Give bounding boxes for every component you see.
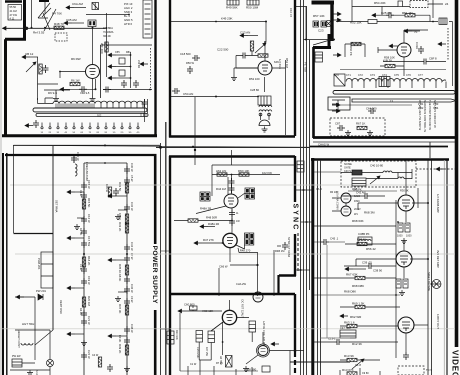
resistor R13 xyxy=(347,358,357,361)
node label V12 vertical xyxy=(287,237,291,258)
resistor R49 hatched box xyxy=(227,0,239,5)
svg-text:922: 922 xyxy=(97,113,102,117)
svg-text:C39 .05: C39 .05 xyxy=(362,261,372,265)
svg-text:R30 5K: R30 5K xyxy=(400,189,409,193)
capacitor C12 xyxy=(79,86,87,92)
resistor RF3 vertical xyxy=(125,265,128,275)
node label R58 10K xyxy=(384,56,395,60)
svg-text:C22 500: C22 500 xyxy=(217,48,229,52)
wire horizontal H15 xyxy=(44,90,70,96)
wire grid lead V2 xyxy=(60,72,86,79)
ground B2 xyxy=(231,75,237,81)
node junction dot bus2 xyxy=(215,96,217,98)
wire C66 link xyxy=(230,253,258,296)
node dashed box top xyxy=(410,1,428,8)
node label C54 xyxy=(183,92,193,96)
wire termination internals xyxy=(332,100,345,110)
node label CHAS W xyxy=(318,143,330,147)
node terminal arrow bus left xyxy=(3,27,11,31)
wire osc input xyxy=(186,306,222,311)
capacitor C13A xyxy=(187,66,193,74)
wire block D right border xyxy=(446,159,448,375)
ground F4 xyxy=(115,296,121,302)
capacitor CF2 xyxy=(124,204,130,212)
wire horizontal H16 xyxy=(38,83,59,85)
node connector pair P4 xyxy=(321,21,327,27)
svg-text:C72: C72 xyxy=(358,73,363,77)
wire block C top border xyxy=(312,1,335,5)
capacitor C23 terminal xyxy=(240,34,248,38)
capacitor CF4 xyxy=(124,286,130,294)
wire d-top net xyxy=(314,171,342,173)
node label comp box xyxy=(353,189,362,192)
wire cluster bottom xyxy=(103,89,152,91)
svg-text:C1.8: C1.8 xyxy=(355,363,361,367)
svg-text:R12 3K: R12 3K xyxy=(352,342,362,346)
node label FRED ADJ vertical xyxy=(85,162,89,181)
node label C60 vertical xyxy=(76,152,80,161)
svg-text:R48A 2R: R48A 2R xyxy=(208,222,219,226)
svg-text:NOT ANY CIRCUIT W: NOT ANY CIRCUIT W xyxy=(433,100,437,128)
svg-text:R60 PK: R60 PK xyxy=(349,46,353,56)
wire V9 cathode xyxy=(403,267,405,278)
svg-text:R44 1M: R44 1M xyxy=(216,187,226,191)
node label R57 xyxy=(313,14,325,18)
wire top stage feed xyxy=(348,190,397,192)
svg-text:C16 W: C16 W xyxy=(87,214,91,223)
node termination dot xyxy=(337,103,339,105)
wire diagonal crossover xyxy=(43,9,56,31)
tube V2 pentode xyxy=(86,65,100,79)
svg-text:7F: 7F xyxy=(414,30,418,34)
resistor RF21 vertical xyxy=(125,214,128,224)
resistor RF5 vertical xyxy=(125,345,128,355)
wire riser turn xyxy=(429,142,431,158)
node label K8 xyxy=(383,59,392,63)
wire bottom-left net xyxy=(15,297,35,360)
wire inner partition left xyxy=(13,146,15,234)
node junction dot xyxy=(265,21,267,23)
node label V9 vertical xyxy=(436,250,440,268)
node label RF2 vertical xyxy=(118,222,122,231)
capacitor C55 xyxy=(43,65,49,73)
capacitor CL2 xyxy=(229,185,235,193)
node terminal UB12 xyxy=(22,55,30,59)
svg-text:R62 WR: R62 WR xyxy=(350,315,362,319)
wire T2 leads xyxy=(261,113,270,120)
svg-text:24: 24 xyxy=(445,2,449,6)
svg-text:R67 1K: R67 1K xyxy=(356,122,365,126)
connector DL2 input xyxy=(334,74,345,86)
node label C60 800 xyxy=(184,303,195,307)
node T2 lead circles xyxy=(259,113,262,116)
node label CE5 vertical xyxy=(87,316,91,325)
wire V8 cathode xyxy=(405,211,407,222)
resistor R67b xyxy=(355,276,365,279)
wire interconnect xyxy=(236,51,258,68)
resistor RE2 vertical xyxy=(82,257,85,267)
node label border box vertical xyxy=(175,330,178,340)
node label RF4 vertical xyxy=(118,304,122,313)
svg-text:R68 D8K: R68 D8K xyxy=(352,284,364,288)
node label R30 xyxy=(400,189,409,193)
node label A6 vertical xyxy=(219,356,222,365)
diode D2 xyxy=(38,294,43,300)
node label C10 vertical xyxy=(289,8,293,17)
svg-text:R15 5K: R15 5K xyxy=(87,198,91,207)
svg-text:3V4 DET AMP: 3V4 DET AMP xyxy=(436,250,440,268)
svg-text:K49 20K: K49 20K xyxy=(221,17,233,21)
transistor Q1 xyxy=(38,3,51,18)
svg-text:2CNV: 2CNV xyxy=(354,208,361,211)
node label R54 xyxy=(374,1,386,5)
wire DL1 right risers xyxy=(145,99,148,122)
wire left street bus 2 xyxy=(165,122,167,375)
svg-text:R58 10K: R58 10K xyxy=(384,56,395,60)
wire block B right border xyxy=(294,0,296,136)
wire street cross link 2 xyxy=(301,221,314,223)
wire vertical V33 xyxy=(31,0,33,28)
wire RG feeds xyxy=(199,342,211,360)
node socket E1 xyxy=(325,20,331,26)
capacitor C15 xyxy=(142,99,148,107)
svg-text:CHAS W: CHAS W xyxy=(318,143,330,147)
node label RF21 vertical xyxy=(118,213,122,220)
svg-text:R57 13K: R57 13K xyxy=(313,14,325,18)
node street dots xyxy=(300,189,308,271)
node label mid pair vertical xyxy=(105,184,109,192)
capacitor C6A label xyxy=(72,2,83,6)
capacitor CE5 xyxy=(81,318,87,326)
wire lin top net xyxy=(212,164,295,166)
svg-text:R6 1W: R6 1W xyxy=(71,79,80,83)
capacitor C43 box xyxy=(398,223,403,232)
resistor R4 label xyxy=(52,12,62,16)
wire gray margin line xyxy=(443,160,445,375)
node lamp I1 xyxy=(47,360,54,367)
wire vertical from bus xyxy=(265,22,267,43)
capacitor CE13 xyxy=(81,310,87,318)
node pin labels column xyxy=(124,2,133,26)
svg-text:R68 D8K: R68 D8K xyxy=(344,290,356,294)
node label C18 xyxy=(180,52,191,56)
inductor DL1 delay line coils xyxy=(53,101,143,103)
svg-text:L/S A WA CONN: L/S A WA CONN xyxy=(336,191,339,210)
node terminal arrow F3 xyxy=(108,258,116,262)
resistor R58 xyxy=(385,64,395,67)
node label RE1 vertical xyxy=(87,198,91,207)
node label LATCH vertical xyxy=(262,321,266,346)
capacitor CE1 xyxy=(81,182,87,190)
svg-text:41 1M: 41 1M xyxy=(10,9,17,13)
node label R51 vertical xyxy=(285,58,289,68)
node label R48b xyxy=(206,215,217,219)
wire right chain bus xyxy=(126,163,128,375)
node label L20 xyxy=(358,232,370,236)
svg-text:R48 70: R48 70 xyxy=(54,22,64,26)
node label R12 xyxy=(352,342,362,346)
node terminal arrow F5 xyxy=(108,334,116,338)
svg-text:R31 5K: R31 5K xyxy=(118,182,122,191)
capacitor CF8 on riser xyxy=(229,210,235,218)
tube V5 triode xyxy=(258,61,272,75)
potentiometer arrow gate xyxy=(370,176,380,184)
svg-text:C38 W: C38 W xyxy=(130,324,134,333)
node label CE1 vertical xyxy=(87,180,91,189)
svg-text:102 KW: 102 KW xyxy=(262,171,272,175)
tube V12 sync sep b xyxy=(223,234,237,248)
node terminal arrow C2 xyxy=(333,53,341,57)
connector left border box xyxy=(167,331,174,344)
capacitor C25 xyxy=(386,12,394,18)
node label C25 xyxy=(381,11,391,15)
node terminal 7F xyxy=(404,29,412,33)
svg-text:C34 W: C34 W xyxy=(130,242,134,251)
svg-text:1/2 6U8: 1/2 6U8 xyxy=(278,59,282,69)
svg-text:CHA 2W: CHA 2W xyxy=(236,282,246,286)
capacitor C45 xyxy=(321,239,329,245)
svg-text:6AL5: 6AL5 xyxy=(354,195,360,198)
inductor DL1 body bar 1 xyxy=(33,108,147,112)
svg-text:C1 W: C1 W xyxy=(190,363,197,366)
node junction blob bus xyxy=(25,27,28,30)
wire block E right border lower xyxy=(154,310,157,375)
node label TO CRT xyxy=(426,368,432,372)
node terminal arrow cluster 1 xyxy=(108,53,116,57)
connector C47 box xyxy=(340,330,356,338)
svg-text:C17 5W: C17 5W xyxy=(87,236,91,246)
svg-text:C66 W: C66 W xyxy=(219,265,228,269)
node label sync pair vertical xyxy=(336,191,339,210)
node connector pair P3 xyxy=(313,21,319,27)
svg-text:R6D 10K: R6D 10K xyxy=(238,169,249,173)
svg-text:1D: 1D xyxy=(113,132,116,134)
wire diag E xyxy=(35,330,53,345)
svg-text:R50 W: R50 W xyxy=(186,61,194,65)
node label V10 vertical xyxy=(436,314,440,329)
node label CE11 vertical xyxy=(79,228,83,235)
svg-text:K50 10K: K50 10K xyxy=(203,309,214,313)
node label D2 xyxy=(36,289,46,293)
connector J2 xyxy=(92,3,99,10)
wire block C left jog xyxy=(313,34,331,48)
resistor R53 xyxy=(258,54,268,57)
node junction dot C66 xyxy=(256,264,258,266)
capacitor C44 box xyxy=(405,223,410,232)
capacitor C18 xyxy=(192,55,200,61)
node terminal arrow cluster 2 xyxy=(108,65,116,69)
wire lower net 1 xyxy=(314,294,401,296)
node label C64 xyxy=(366,107,377,111)
street between F and G xyxy=(219,233,298,302)
node label CE13 vertical xyxy=(79,308,83,315)
svg-text:AS VALUES 7% AND W: AS VALUES 7% AND W xyxy=(418,100,422,130)
dashed box CRT link xyxy=(398,366,424,375)
node label 6J6 xyxy=(274,60,279,64)
ground G2 xyxy=(243,366,249,372)
svg-text:C21 W: C21 W xyxy=(87,316,91,325)
capacitor CF3 xyxy=(124,244,130,252)
wire block E left border outer xyxy=(2,153,4,375)
svg-text:C87: C87 xyxy=(335,122,341,126)
svg-text:C13-1: C13-1 xyxy=(328,337,336,341)
node terminal arrow T1 xyxy=(66,6,74,10)
svg-text:R50 10M: R50 10M xyxy=(246,6,259,10)
node mid pair resistors xyxy=(108,187,111,197)
node note text vertical 4 xyxy=(433,100,437,128)
svg-text:Ref 3.55: Ref 3.55 xyxy=(33,31,45,35)
svg-text:C30 W: C30 W xyxy=(130,163,134,172)
wire DL1 taps xyxy=(101,104,143,109)
node label RF5 vertical xyxy=(118,344,122,353)
svg-text:R4B 1M: R4B 1M xyxy=(275,249,284,253)
capacitor CF22 xyxy=(124,255,130,263)
wire block C left border lower xyxy=(312,47,315,138)
inductor T2 windings xyxy=(259,105,272,107)
node dashed right box xyxy=(338,160,340,162)
ground B1 xyxy=(262,127,268,133)
connector TB1 terminal strip xyxy=(143,0,152,38)
node label R68b xyxy=(364,211,375,215)
node label CF20 vertical xyxy=(130,175,134,182)
wire E top link xyxy=(84,162,127,164)
capacitor CA4 xyxy=(133,80,139,88)
connector MO box xyxy=(315,52,323,62)
wire main vertical bus E xyxy=(83,163,85,375)
wire inner partition bottom xyxy=(14,233,54,235)
resistor RA2 box xyxy=(119,70,125,76)
wire DL2 taps xyxy=(352,82,446,89)
node label R69 xyxy=(352,302,365,306)
node label R52 100 xyxy=(249,77,260,81)
node label R52b xyxy=(350,21,362,25)
wire block C bottom border xyxy=(313,136,456,139)
node terminal arrow gate out xyxy=(436,167,444,171)
wire gray seg 2 xyxy=(321,245,351,338)
wire gate net xyxy=(341,169,412,179)
node label PE 7DB vertical xyxy=(304,62,308,72)
node label CF2 vertical xyxy=(130,202,134,211)
node label K49 xyxy=(221,17,233,21)
inductor L6 height coil xyxy=(21,343,33,345)
svg-text:C64 300: C64 300 xyxy=(366,107,377,111)
node label RF3 vertical xyxy=(118,264,122,273)
svg-text:PW 201: PW 201 xyxy=(36,289,46,293)
node label R50 xyxy=(246,6,259,10)
svg-text:1/2 6AW8 AMP: 1/2 6AW8 AMP xyxy=(436,194,440,213)
wire right riser xyxy=(452,22,454,87)
ground F6 xyxy=(124,366,130,372)
capacitor C13 xyxy=(334,339,342,345)
svg-text:C15 W: C15 W xyxy=(87,180,91,189)
node text rows tube data xyxy=(103,27,114,38)
node terminal arrow F0 xyxy=(200,225,208,229)
wire V12 out xyxy=(238,248,258,253)
capacitor C16 xyxy=(403,352,409,360)
node label RG2 vertical xyxy=(205,347,209,356)
connector R45 box xyxy=(249,321,256,332)
wire h link 39 xyxy=(306,39,334,41)
svg-text:C73: C73 xyxy=(370,73,375,77)
svg-text:C38B PK: C38B PK xyxy=(358,232,370,236)
svg-text:47 1W: 47 1W xyxy=(10,13,18,17)
svg-text:2D: 2D xyxy=(121,132,124,134)
resistor R67 xyxy=(357,126,367,129)
node label C58 bottom xyxy=(246,368,257,372)
svg-text:C32 W: C32 W xyxy=(130,202,134,211)
ground E9 xyxy=(27,370,33,375)
node terminal tiny labels xyxy=(41,132,140,134)
capacitor C38 xyxy=(421,59,429,65)
wire D bottom stubs xyxy=(340,368,380,375)
node label CL5 xyxy=(316,188,338,194)
node label R68d xyxy=(344,290,356,294)
node label Ref 3.55 xyxy=(33,31,45,35)
ground C3 xyxy=(345,130,351,136)
wire street crossing vertical xyxy=(194,97,196,165)
node label R13 xyxy=(344,354,354,358)
wire block E right border upper xyxy=(154,156,157,244)
svg-text:R51 1M: R51 1M xyxy=(402,11,413,15)
resistor R69 xyxy=(355,305,365,308)
resistor R70 dark box xyxy=(352,170,362,175)
wire V15 leads xyxy=(246,332,304,364)
svg-text:R48 50R: R48 50R xyxy=(206,215,217,219)
resistor RG0 box xyxy=(190,306,198,310)
node label V8 vertical xyxy=(436,194,440,213)
svg-text:C36 W: C36 W xyxy=(130,284,134,293)
node label CE12 vertical xyxy=(79,264,83,271)
node junction dots F xyxy=(222,220,233,244)
node terminal arrow row2 xyxy=(372,13,380,17)
node terminal arrow E4 xyxy=(67,286,75,290)
node note text vertical 2 xyxy=(423,100,427,132)
svg-text:C/L 5: C/L 5 xyxy=(316,188,322,191)
wire V12 cathode xyxy=(229,248,231,262)
resistor R52 vertical xyxy=(250,41,253,51)
node label C55 R81 xyxy=(115,51,131,54)
node label R4B xyxy=(275,249,284,253)
node label R68 xyxy=(352,219,364,223)
svg-text:VERT OSC: VERT OSC xyxy=(59,300,63,314)
capacitor CF1 xyxy=(124,166,130,174)
dashed box tuning xyxy=(330,118,385,136)
capacitor CF5 xyxy=(124,326,130,334)
capacitor C14 xyxy=(33,120,39,128)
ground D1 xyxy=(401,238,407,244)
wire E street horizontals xyxy=(161,251,170,329)
svg-text:R56 42: R56 42 xyxy=(366,247,376,251)
svg-text:1F4 8DA: 1F4 8DA xyxy=(103,27,113,30)
svg-text:C19 W: C19 W xyxy=(87,276,91,285)
wire phase link xyxy=(432,283,441,285)
wire block D top border xyxy=(311,158,449,161)
svg-text:DISC: DISC xyxy=(354,200,360,203)
capacitor CA5 xyxy=(103,87,111,93)
node label R63 xyxy=(344,321,355,325)
wire V11 diag xyxy=(196,206,226,214)
svg-text:C38 90: C38 90 xyxy=(373,269,382,273)
svg-text:FREQ ADJ RM: FREQ ADJ RM xyxy=(85,162,89,181)
node terminal arrows under xyxy=(332,103,340,107)
wire height net xyxy=(15,330,50,359)
node note text vertical 1 xyxy=(418,100,422,130)
wire block F left border xyxy=(169,156,171,375)
svg-text:C6A AM: C6A AM xyxy=(72,2,83,6)
svg-text:C9A 9-5: C9A 9-5 xyxy=(80,91,90,95)
wire V10 right xyxy=(414,324,428,326)
node labels sync tubes xyxy=(354,195,361,216)
